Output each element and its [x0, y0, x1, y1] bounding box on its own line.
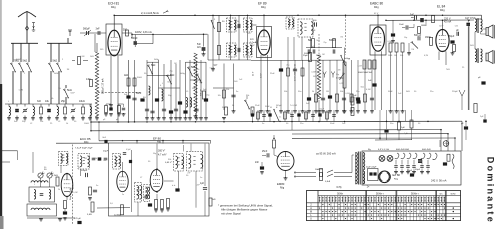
svg-text:30k: 30k [228, 51, 231, 53]
svg-text:50Hz ≈: 50Hz ≈ [376, 192, 385, 195]
svg-text:25p: 25p [61, 100, 66, 103]
svg-text:2,2kΩ: 2,2kΩ [52, 175, 58, 177]
svg-text:Rög: Rög [374, 6, 379, 9]
svg-text:2,7mA: 2,7mA [250, 41, 257, 44]
svg-text:10nF: 10nF [399, 24, 404, 26]
svg-text:5kΩ: 5kΩ [406, 91, 410, 93]
svg-text:0,1M: 0,1M [357, 66, 362, 68]
svg-text:5m: 5m [439, 193, 442, 195]
svg-text:0,1M: 0,1M [210, 67, 215, 69]
svg-text:EL 84: EL 84 [437, 5, 445, 9]
svg-text:0,6 A: 0,6 A [325, 180, 331, 183]
svg-text:1µF: 1µF [200, 183, 205, 185]
svg-text:6,3 V 0,1 A: 6,3 V 0,1 A [378, 148, 389, 151]
svg-text:1M: 1M [338, 70, 341, 72]
svg-text:16A 0,8: 16A 0,8 [315, 168, 323, 171]
svg-text:5kΩ: 5kΩ [234, 81, 238, 83]
svg-text:5kΩ: 5kΩ [151, 64, 156, 67]
svg-text:5kΩg: 5kΩg [154, 59, 159, 61]
svg-text:250pF: 250pF [452, 91, 458, 93]
svg-text:30k: 30k [247, 52, 250, 54]
svg-text:EM80: EM80 [277, 182, 285, 186]
svg-text:4,7 mA*: 4,7 mA* [158, 153, 167, 156]
svg-text:5kΩ: 5kΩ [361, 87, 365, 89]
svg-text:3nF: 3nF [37, 100, 42, 103]
svg-text:50p: 50p [404, 37, 407, 39]
svg-text:14 V: 14 V [261, 73, 263, 78]
svg-text:170 µF: 170 µF [74, 218, 82, 220]
svg-text:Cg7 07nF: Cg7 07nF [465, 17, 476, 20]
svg-text:0,5M: 0,5M [345, 93, 350, 95]
svg-text:25n: 25n [300, 123, 303, 125]
svg-text:25n: 25n [430, 91, 433, 93]
svg-text:5n: 5n [262, 123, 264, 125]
svg-text:5n: 5n [355, 98, 357, 100]
svg-text:25p: 25p [323, 42, 326, 44]
svg-text:4kΩ 4kΩ: 4kΩ 4kΩ [422, 149, 431, 151]
svg-text:0,1M: 0,1M [321, 111, 326, 113]
svg-text:560pF: 560pF [83, 28, 90, 31]
svg-text:ca 93 W, 260 mA: ca 93 W, 260 mA [316, 152, 336, 156]
svg-text:U: U [310, 218, 312, 221]
svg-text:4kΩ 4kΩ 4kΩ: 4kΩ 4kΩ 4kΩ [396, 149, 409, 151]
svg-text:500kΩ: 500kΩ [304, 53, 311, 55]
svg-text:14Ω: 14Ω [86, 78, 91, 81]
svg-text:73 V: 73 V [250, 45, 255, 47]
svg-text:5k: 5k [312, 91, 314, 93]
svg-text:1kΩ: 1kΩ [124, 75, 128, 77]
svg-text:30k: 30k [58, 88, 61, 90]
svg-text:545: 545 [167, 82, 170, 84]
svg-text:5k: 5k [232, 105, 234, 107]
svg-text:25p: 25p [336, 74, 339, 76]
svg-text:50Hz: 50Hz [337, 192, 344, 195]
svg-text:1M: 1M [340, 36, 343, 38]
svg-text:5kΩ/2: 5kΩ/2 [54, 73, 60, 75]
svg-text:0,1M: 0,1M [366, 89, 371, 91]
svg-text:Rög: Rög [84, 141, 89, 144]
svg-text:5n: 5n [279, 116, 281, 118]
svg-text:14 V: 14 V [253, 71, 255, 76]
svg-text:Dominante: Dominante [485, 157, 495, 224]
svg-text:25pF: 25pF [303, 55, 309, 57]
svg-text:5kΩ: 5kΩ [308, 40, 312, 42]
svg-text:EZ 80: EZ 80 [393, 173, 401, 177]
svg-text:50µF: 50µF [449, 36, 455, 38]
svg-text:1M: 1M [67, 69, 70, 71]
svg-text:50p: 50p [153, 153, 156, 155]
svg-text:7,3 µF 50µF 20µF: 7,3 µF 50µF 20µF [75, 148, 93, 150]
svg-text:0,5MΩg: 0,5MΩg [336, 78, 344, 80]
svg-text:5kΩ: 5kΩ [23, 59, 28, 63]
svg-text:50nF: 50nF [388, 91, 393, 93]
svg-text:5kΩ: 5kΩ [316, 40, 320, 42]
svg-text:500pF: 500pF [131, 38, 138, 40]
svg-text:30k: 30k [168, 159, 171, 161]
svg-text:500 µF: 500 µF [414, 35, 422, 37]
svg-text:545: 545 [455, 26, 458, 28]
svg-text:50Hz: 50Hz [450, 193, 455, 195]
svg-text:0,5M: 0,5M [93, 158, 98, 160]
svg-text:1M: 1M [288, 113, 291, 115]
svg-text:545: 545 [84, 158, 87, 160]
svg-text:545pF: 545pF [81, 170, 88, 172]
svg-text:0,1M: 0,1M [73, 192, 78, 194]
svg-text:50k: 50k [284, 91, 287, 93]
svg-text:5nF: 5nF [410, 15, 415, 17]
svg-text:EABC 80: EABC 80 [370, 2, 383, 6]
svg-text:1M: 1M [411, 49, 414, 51]
svg-text:1µF: 1µF [401, 127, 405, 129]
svg-text:5kΩ: 5kΩ [67, 88, 72, 92]
svg-text:50nF: 50nF [330, 123, 335, 125]
svg-text:7kΩ: 7kΩ [446, 69, 450, 71]
svg-text:2,1 mA/4,5mA: 2,1 mA/4,5mA [141, 11, 159, 15]
svg-text:50µF: 50µF [407, 170, 413, 172]
svg-text:565 pF, 27 mA: 565 pF, 27 mA [102, 78, 105, 94]
svg-text:50nF: 50nF [262, 57, 267, 59]
svg-text:10kΩ: 10kΩ [79, 100, 85, 103]
svg-text:1kΩ: 1kΩ [212, 199, 216, 201]
svg-text:50k: 50k [340, 91, 343, 93]
svg-text:0,5M: 0,5M [19, 89, 24, 91]
svg-text:2nF: 2nF [255, 162, 260, 164]
svg-text:4,5pF: 4,5pF [126, 149, 132, 151]
svg-text:5kΩ: 5kΩ [191, 66, 196, 69]
svg-text:30k: 30k [218, 95, 221, 97]
svg-text:545pF: 545pF [276, 105, 282, 107]
svg-text:50µF+50µF: 50µF+50µF [366, 167, 377, 169]
svg-text:30kΩ: 30kΩ [137, 77, 142, 79]
svg-text:3×Hy: 3×Hy [336, 186, 342, 189]
svg-text:100V, 4,8 mA: 100V, 4,8 mA [135, 30, 152, 34]
svg-text:50k: 50k [400, 55, 403, 57]
svg-text:25nF: 25nF [262, 151, 268, 153]
svg-text:1M: 1M [394, 55, 397, 57]
svg-text:42 mA: 42 mA [444, 21, 452, 24]
svg-text:Rög: Rög [280, 188, 285, 190]
svg-text:3nF: 3nF [96, 28, 101, 31]
svg-text:EF 89: EF 89 [258, 2, 267, 6]
svg-text:20µF: 20µF [103, 151, 109, 153]
svg-text:5nF: 5nF [197, 44, 202, 46]
svg-text:5kΩ: 5kΩ [470, 45, 474, 47]
svg-text:Rög: Rög [261, 6, 266, 9]
svg-text:500kΩ: 500kΩ [329, 40, 336, 42]
svg-text:25n: 25n [356, 91, 359, 93]
svg-text:mit ohne Signal: mit ohne Signal [221, 212, 241, 216]
svg-text:5kΩg: 5kΩg [180, 73, 185, 75]
svg-text:50Ω: 50Ω [123, 30, 128, 32]
svg-text:50Hz ≈: 50Hz ≈ [411, 192, 420, 195]
svg-text:30k: 30k [181, 162, 184, 164]
svg-text:2k: 2k [58, 189, 60, 191]
svg-text:DrHgg: DrHgg [344, 57, 351, 60]
svg-text:10kΩ: 10kΩ [84, 123, 89, 125]
svg-text:160Ω: 160Ω [425, 37, 431, 39]
svg-text:1kV: 1kV [197, 47, 201, 49]
svg-text:5kΩ: 5kΩ [53, 59, 58, 63]
svg-text:ECH 81: ECH 81 [108, 2, 119, 6]
svg-text:10k: 10k [50, 98, 53, 100]
svg-text:50kΩ 50kΩ 5kΩ: 50kΩ 50kΩ 5kΩ [358, 72, 373, 74]
svg-text:50n: 50n [298, 91, 301, 93]
svg-text:5n: 5n [96, 185, 98, 187]
svg-text:50µF: 50µF [415, 169, 421, 171]
svg-text:1kΩ: 1kΩ [90, 56, 94, 58]
svg-text:5n: 5n [122, 194, 124, 196]
svg-text:1MΩ: 1MΩ [421, 25, 426, 27]
svg-text:10k: 10k [246, 55, 249, 57]
svg-text:30k: 30k [192, 88, 195, 90]
svg-text:0,65 V*: 0,65 V* [165, 162, 172, 164]
svg-text:1k: 1k [66, 123, 68, 125]
svg-text:242 V, 56 mA: 242 V, 56 mA [431, 179, 447, 183]
svg-text:300 V*: 300 V* [158, 150, 165, 153]
svg-text:Tr 0,1W: Tr 0,1W [290, 105, 297, 107]
svg-text:25nF: 25nF [255, 105, 260, 107]
svg-text:30k: 30k [246, 95, 249, 97]
svg-text:92V: 92V [250, 39, 254, 41]
svg-text:Rög: Rög [440, 9, 445, 12]
svg-text:1M: 1M [103, 160, 106, 162]
svg-text:50n: 50n [390, 123, 393, 125]
svg-text:1n: 1n [200, 177, 202, 179]
svg-text:Rög: Rög [111, 6, 116, 9]
svg-text:1M: 1M [322, 54, 325, 56]
svg-text:0,1M: 0,1M [339, 83, 344, 85]
svg-text:50nF: 50nF [136, 93, 142, 95]
svg-text:30k: 30k [199, 82, 202, 84]
svg-text:545: 545 [247, 33, 250, 35]
svg-text:4,7k: 4,7k [390, 41, 394, 43]
svg-text:50nF: 50nF [265, 106, 270, 108]
svg-text:1M: 1M [326, 91, 329, 93]
svg-text:25nF: 25nF [270, 73, 275, 75]
svg-text:0,5M: 0,5M [311, 71, 316, 73]
svg-text:5n: 5n [236, 91, 238, 93]
svg-text:50k: 50k [226, 89, 229, 91]
svg-text:0,5M: 0,5M [80, 56, 85, 58]
svg-text:2MΩ: 2MΩ [388, 55, 393, 57]
svg-text:10k: 10k [40, 121, 43, 123]
svg-text:0,3V: 0,3V [424, 55, 429, 57]
svg-text:50p: 50p [443, 51, 446, 53]
svg-text:5,6Ω: 5,6Ω [87, 214, 92, 216]
svg-text:5kΩ/2: 5kΩ/2 [16, 59, 22, 61]
svg-text:1M: 1M [174, 63, 177, 65]
